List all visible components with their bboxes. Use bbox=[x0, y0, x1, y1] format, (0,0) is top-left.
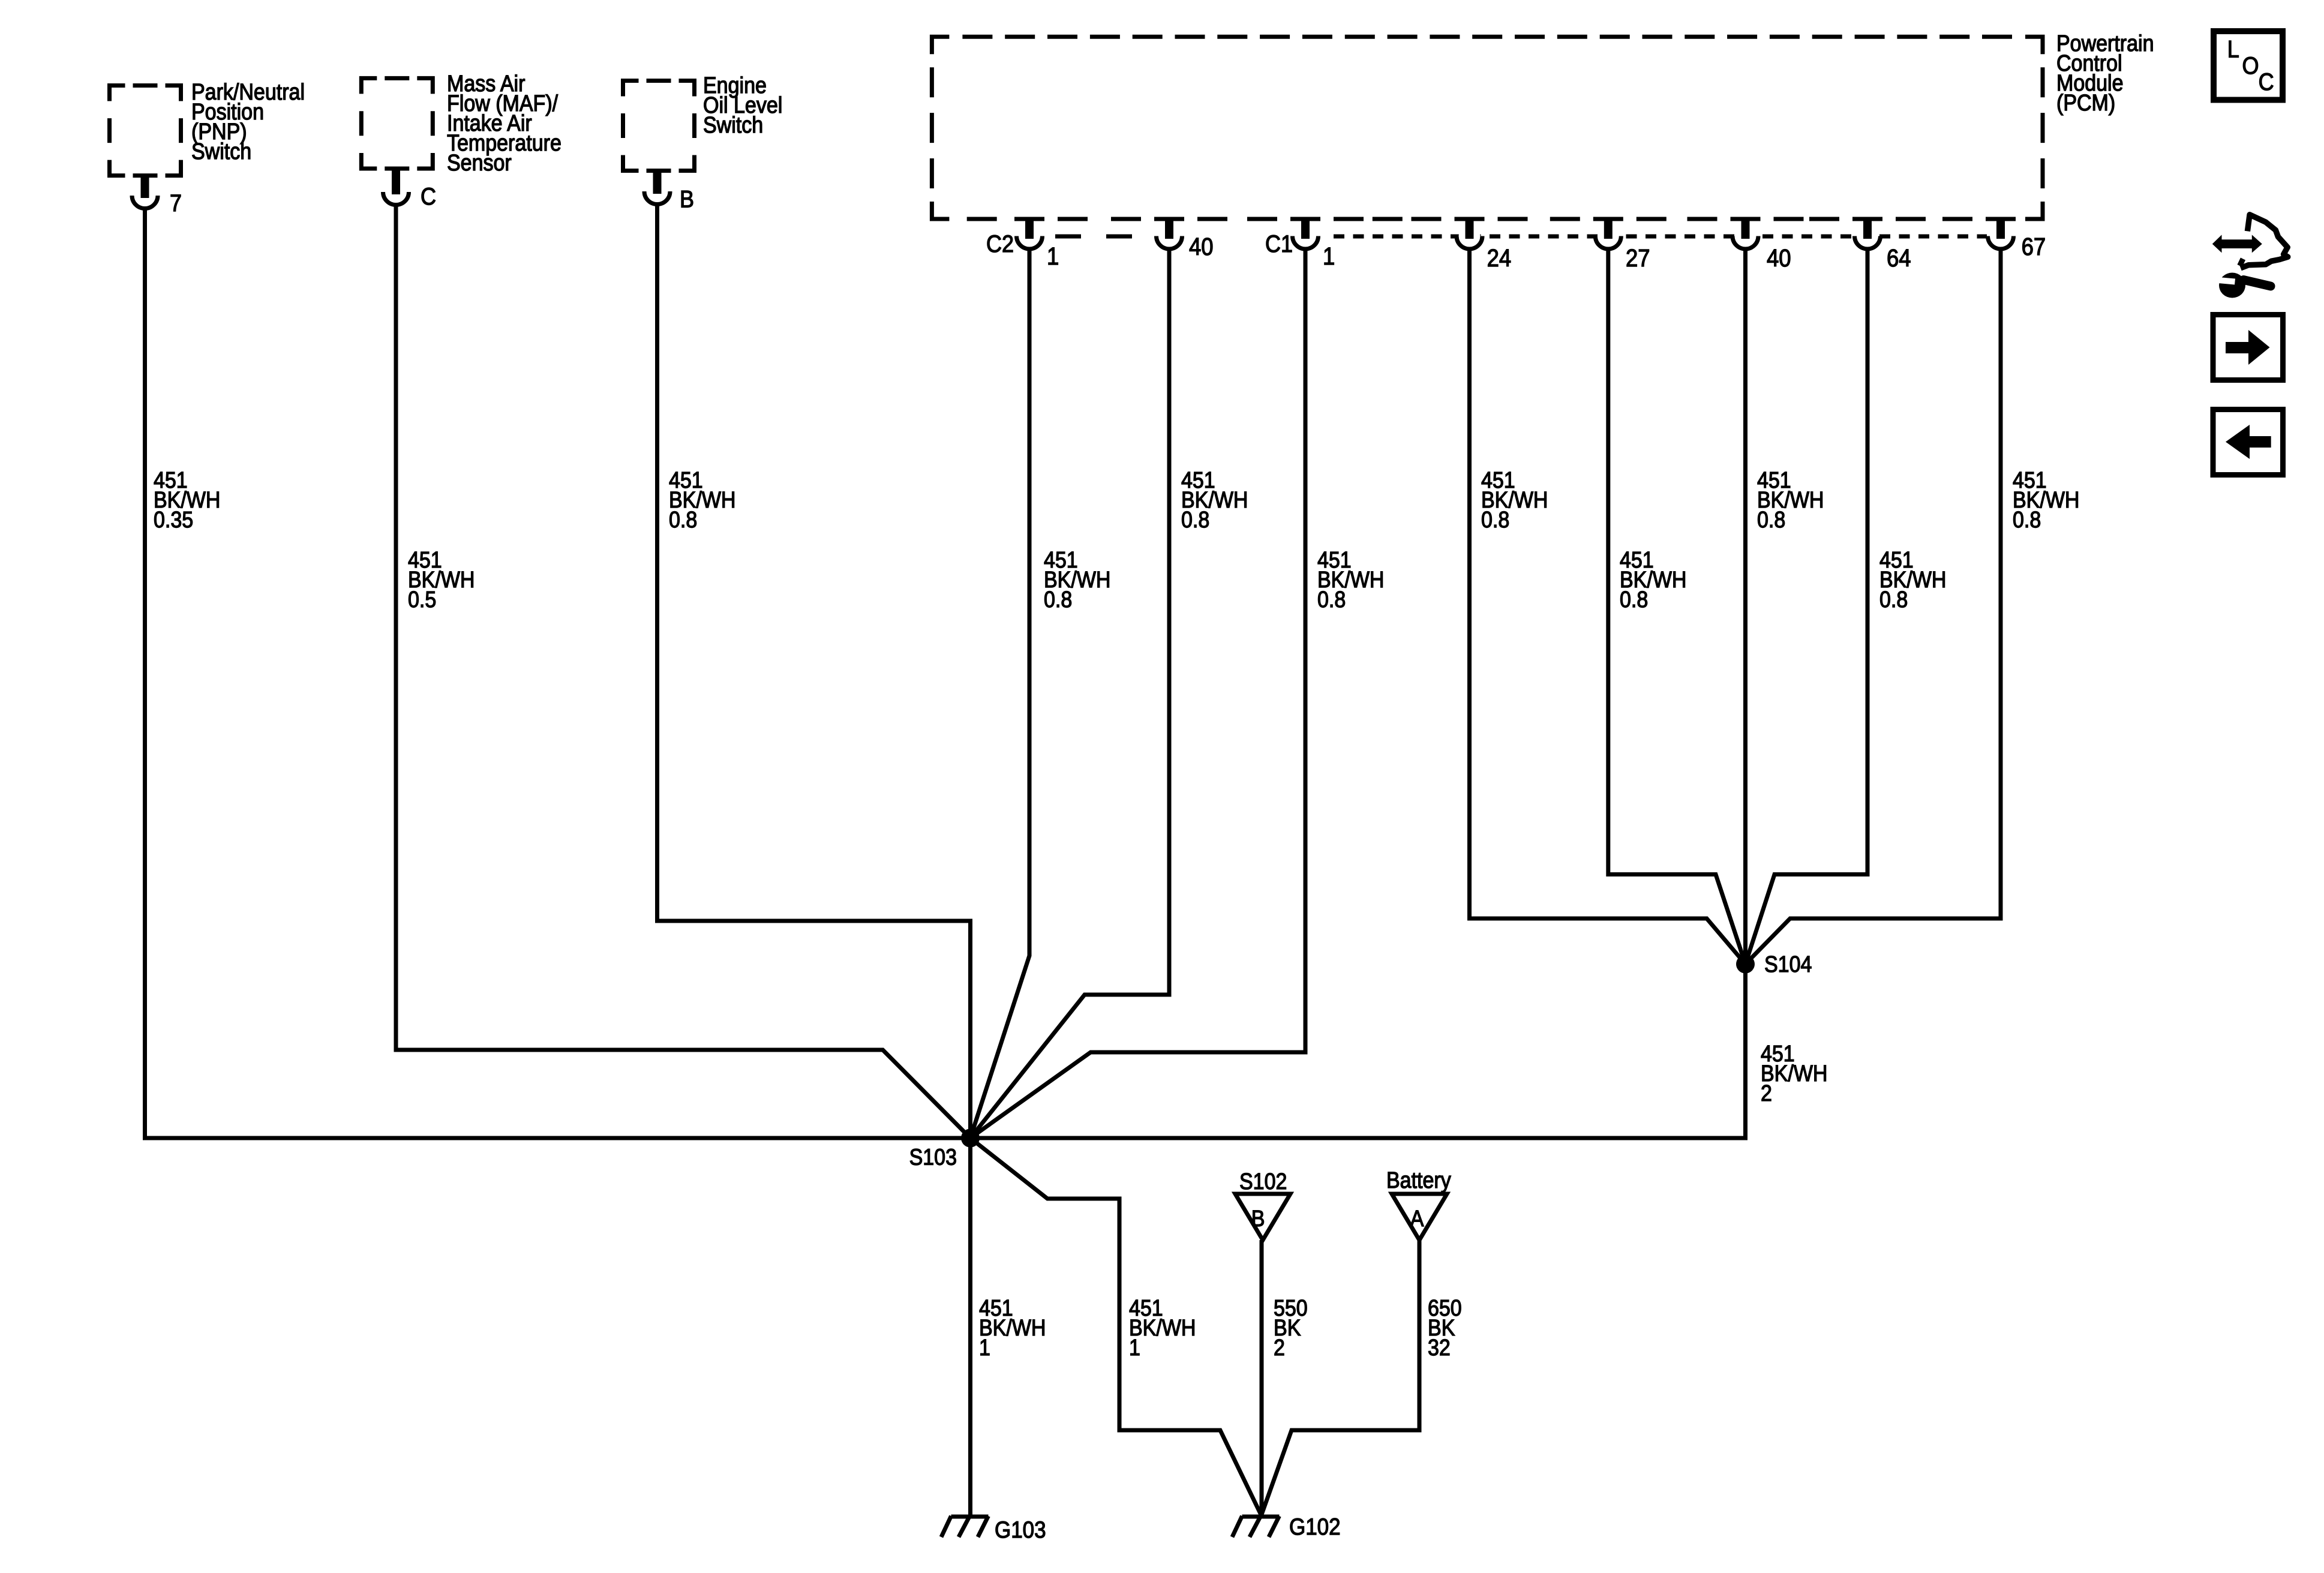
svg-text:0.8: 0.8 bbox=[2013, 507, 2041, 532]
wire 451 BK/WH 1 from S103 to G102 bbox=[971, 1138, 1262, 1515]
svg-text:1: 1 bbox=[1129, 1335, 1140, 1360]
svg-text:2: 2 bbox=[1761, 1080, 1772, 1106]
svg-text:32: 32 bbox=[1428, 1335, 1451, 1360]
off-page connector S102 pin B bbox=[1235, 1194, 1290, 1240]
PCM connector pin C2-1 bbox=[1019, 226, 1040, 247]
svg-text:0.35: 0.35 bbox=[154, 507, 193, 532]
svg-text:Sensor: Sensor bbox=[447, 150, 512, 175]
svg-text:0.8: 0.8 bbox=[1757, 507, 1785, 532]
connector pin B of Engine Oil Level Switch bbox=[647, 181, 668, 202]
component box Park/Neutral Position (PNP) Switch bbox=[107, 83, 183, 178]
svg-text:0.8: 0.8 bbox=[1317, 587, 1346, 612]
svg-text:24: 24 bbox=[1487, 244, 1512, 272]
wire 451 BK/WH 0.5 from MAF pin C to S103 bbox=[396, 203, 971, 1138]
wire 451 BK/WH 0.8 from PCM pin 64 to S104 bbox=[1746, 249, 1868, 964]
svg-text:0.5: 0.5 bbox=[408, 587, 436, 612]
PCM connector pin 24 bbox=[1459, 226, 1481, 247]
wire 650 BK 32 from Battery to G102 bbox=[1262, 1240, 1420, 1515]
svg-text:2: 2 bbox=[1274, 1335, 1285, 1360]
splice S103 bbox=[961, 1129, 980, 1148]
svg-text:S102: S102 bbox=[1239, 1169, 1287, 1194]
wire 451 BK/WH 1 from S103 to G103 bbox=[968, 1138, 972, 1515]
icon box with left arrow bbox=[2213, 410, 2283, 475]
svg-text:O: O bbox=[2242, 53, 2259, 79]
PCM connector pin C1-1 bbox=[1295, 226, 1316, 247]
svg-text:S104: S104 bbox=[1764, 951, 1812, 977]
svg-text:A: A bbox=[1410, 1206, 1424, 1231]
svg-text:67: 67 bbox=[2022, 233, 2046, 260]
svg-text:40: 40 bbox=[1189, 233, 1214, 260]
connector pin C of MAF/IAT sensor bbox=[385, 181, 407, 203]
svg-text:C: C bbox=[2259, 69, 2274, 95]
svg-text:C2: C2 bbox=[986, 231, 1014, 257]
svg-text:1: 1 bbox=[1323, 242, 1335, 270]
svg-text:27: 27 bbox=[1626, 244, 1650, 272]
svg-text:C1: C1 bbox=[1265, 231, 1293, 257]
svg-text:B: B bbox=[680, 187, 694, 213]
splice S104 bbox=[1736, 955, 1755, 974]
svg-text:40: 40 bbox=[1767, 244, 1791, 272]
wire 451 BK/WH 0.35 from PNP pin 7 to S103 bbox=[145, 206, 971, 1138]
svg-text:B: B bbox=[1251, 1206, 1265, 1231]
svg-text:0.8: 0.8 bbox=[669, 507, 697, 532]
svg-text:0.8: 0.8 bbox=[1620, 587, 1648, 612]
svg-text:L: L bbox=[2227, 36, 2239, 62]
PCM connector pin 27 bbox=[1598, 226, 1619, 247]
ground G102 bbox=[1242, 1515, 1280, 1519]
svg-text:64: 64 bbox=[1887, 244, 1911, 272]
svg-text:S103: S103 bbox=[909, 1145, 957, 1170]
PCM connector pin 67 bbox=[1990, 226, 2011, 247]
connector face dashed line C1 bbox=[1334, 235, 1987, 239]
connector face dashed line C2 bbox=[1055, 235, 1132, 239]
PCM connector pin 40 bbox=[1735, 226, 1756, 247]
icon box LOC bbox=[2214, 31, 2283, 100]
svg-text:0.8: 0.8 bbox=[1481, 507, 1509, 532]
svg-text:(PCM): (PCM) bbox=[2056, 90, 2115, 115]
wire 451 BK/WH 2 from S104 to S103 bbox=[971, 964, 1746, 1138]
wire 451 BK/WH 0.8 from PCM pin 67 to S104 bbox=[1746, 249, 2001, 964]
wire 550 BK 2 from S102 to G102 bbox=[1260, 1240, 1264, 1515]
svg-text:Switch: Switch bbox=[703, 112, 763, 137]
svg-text:0.8: 0.8 bbox=[1044, 587, 1072, 612]
svg-text:G103: G103 bbox=[995, 1517, 1046, 1543]
off-page connector Battery pin A bbox=[1392, 1194, 1447, 1240]
PCM connector pin 64 bbox=[1857, 226, 1878, 247]
wire 451 BK/WH 0.8 from PCM C2-40 to S103 bbox=[971, 249, 1170, 1138]
svg-text:0.8: 0.8 bbox=[1181, 507, 1209, 532]
icon service/hotlink (double arrow with wrench) bbox=[2212, 235, 2262, 253]
svg-text:G102: G102 bbox=[1289, 1514, 1341, 1540]
icon box with right arrow bbox=[2213, 315, 2283, 380]
svg-text:1: 1 bbox=[1047, 242, 1059, 270]
wire 451 BK/WH 0.8 from PCM C2-1 to S103 bbox=[971, 249, 1030, 1138]
svg-text:C: C bbox=[421, 184, 436, 210]
module box Powertrain Control Module (PCM) bbox=[930, 35, 2045, 221]
wire 451 BK/WH 0.8 from PCM pin 27 to S104 bbox=[1608, 249, 1746, 964]
wire 451 BK/WH 0.8 from PCM pin 24 to S104 bbox=[1470, 249, 1746, 964]
svg-text:Switch: Switch bbox=[191, 139, 251, 164]
component box Engine Oil Level Switch bbox=[621, 79, 696, 173]
component box Mass Air Flow (MAF)/Intake Air Temperature Sensor bbox=[359, 76, 435, 171]
wire 451 BK/WH 0.8 from PCM C1-1 to S103 bbox=[971, 249, 1306, 1138]
wire 451 BK/WH 0.8 from Oil Level pin B to S103 bbox=[657, 204, 971, 1138]
svg-text:1: 1 bbox=[979, 1335, 990, 1360]
svg-text:0.8: 0.8 bbox=[1879, 587, 1908, 612]
PCM connector pin C2-40 bbox=[1158, 226, 1180, 247]
ground G103 bbox=[951, 1515, 989, 1519]
connector pin 7 of PNP switch bbox=[134, 185, 156, 206]
svg-text:Battery: Battery bbox=[1386, 1167, 1451, 1193]
svg-text:7: 7 bbox=[170, 190, 182, 217]
wire 451 BK/WH 0.8 from PCM pin 40 to S104 bbox=[1743, 249, 1747, 964]
